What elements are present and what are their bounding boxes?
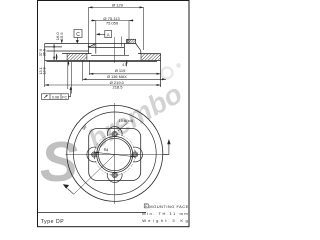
arrow Ø129 left	[89, 6, 93, 8]
front view: bore circles	[97, 137, 133, 173]
front view: bolt holes	[92, 131, 138, 177]
front view: bolt pitch circle	[94, 134, 135, 175]
front view: 45deg diagonal centerline	[74, 155, 115, 195]
OD left extension down	[44, 62, 46, 87]
section view: band bottom line	[45, 59, 161, 61]
datum C box	[74, 30, 82, 42]
front view: band inner circle	[73, 112, 156, 195]
svg-text:218.5: 218.5	[112, 85, 123, 90]
section view: left lip top line	[45, 46, 62, 48]
section view: flange right inner vertical	[126, 39, 128, 43]
svg-text:0.08: 0.08	[52, 95, 59, 99]
rotation arrow right: head	[167, 139, 170, 144]
svg-text:S: S	[40, 130, 78, 194]
dim Ø75 left extension	[95, 21, 97, 44]
section view: bore right wall	[124, 44, 126, 56]
svg-text:Ø 119: Ø 119	[115, 68, 126, 73]
extension below band x82.5	[82, 61, 84, 81]
section view: axis centerline	[113, 37, 115, 63]
section view: band top line right	[138, 53, 161, 55]
svg-text:4.9: 4.9	[122, 63, 127, 67]
section view: left lip second line	[47, 50, 89, 52]
svg-text:MOUNTING FACE: MOUNTING FACE	[149, 204, 188, 209]
arrow Ø219 right	[157, 84, 161, 86]
extension below band for FC pair	[67, 62, 69, 89]
front view: bolt hole cross ticks	[90, 130, 140, 180]
section view: right chamfer	[136, 44, 141, 51]
dim Ø75 line	[91, 20, 134, 22]
section view: band top line left	[62, 53, 92, 55]
arrow Ø119 left	[89, 73, 93, 75]
extension below band x89.3	[88, 61, 90, 76]
dim Ø136 line	[83, 78, 167, 80]
arrow 37.9 top	[53, 44, 55, 48]
watermark registered dot	[176, 63, 181, 68]
section view: OD left edge	[44, 44, 46, 62]
section view: hat neck chamfer diagonal	[89, 44, 95, 47]
svg-text:Type DP: Type DP	[41, 219, 64, 225]
arrow Ø136 left	[83, 78, 87, 80]
mounting-face arrow head	[63, 184, 69, 189]
section view: bolt hole centerline in section	[120, 37, 122, 47]
svg-text:Min. TH 11 mm: Min. TH 11 mm	[142, 211, 188, 216]
section view: left neck hatch wedge	[89, 44, 96, 48]
section view: hat neck left step line	[88, 45, 96, 47]
arrow small dim	[126, 61, 128, 64]
arrow Ø75 left outside	[92, 20, 96, 22]
dim Ø219 line	[45, 84, 161, 86]
section view: hat mounting face top line	[45, 43, 136, 45]
front view: scallop bumps around holes	[87, 127, 143, 183]
dim 16.0/15.5 arrow line	[61, 40, 63, 44]
svg-text:10.6(x4): 10.6(x4)	[119, 118, 134, 123]
small dim 4.9 line	[126, 61, 128, 67]
dim Ø129 right extension	[143, 7, 145, 50]
arrow 37.9 bottom	[53, 57, 55, 61]
section view: OD right edge	[160, 54, 162, 87]
FC feature control frame	[42, 90, 71, 100]
datum A box	[99, 31, 112, 38]
arrow Ø219 left	[45, 84, 49, 86]
arrow Ø75 right outside	[129, 20, 133, 22]
dim Ø129 line	[89, 6, 144, 8]
dim 37.9/36.9 line	[53, 44, 55, 60]
note: mounting face symbol box	[144, 204, 148, 208]
svg-text:15.5: 15.5	[59, 32, 64, 41]
section view: bore left wall	[95, 44, 97, 54]
dia94 arrows	[94, 152, 99, 154]
section view: left band hatch	[67, 54, 87, 61]
svg-text:75.050: 75.050	[106, 21, 119, 26]
arrow Ø119 right	[157, 73, 161, 75]
dim Ø129 left extension	[88, 7, 90, 43]
dim Ø119 line	[89, 73, 160, 75]
FC leader arrow	[70, 87, 72, 90]
section view: right band hatch	[141, 54, 161, 61]
datum A leader arrow	[96, 33, 100, 35]
drawing frame border	[38, 1, 190, 227]
svg-text:C: C	[76, 32, 80, 38]
svg-text:Ø 136 MAX: Ø 136 MAX	[107, 75, 127, 79]
section view: flange top right line	[127, 38, 136, 40]
dim Ø75 right extension	[128, 21, 130, 44]
arrow 13.1 up	[56, 54, 58, 57]
front view: center lines	[66, 103, 170, 204]
front view: outer circle	[67, 105, 163, 201]
section view: hat cone left edge	[88, 44, 90, 54]
FC arrow symbol tick	[46, 95, 48, 97]
dim 13.1/12.9 line	[56, 54, 58, 61]
arrow Ø136 right	[162, 78, 166, 80]
svg-text:36.9: 36.9	[42, 49, 46, 56]
arrow Ø129 right	[140, 6, 144, 8]
svg-text:Weight 3 Kg: Weight 3 Kg	[142, 218, 188, 223]
datum C leader arrow	[76, 40, 79, 43]
section view: right flange hatch	[128, 39, 136, 43]
title block separator line	[38, 211, 147, 213]
rotation arrow right: bent line	[163, 144, 169, 155]
front view: dia94 dimension line	[94, 152, 136, 157]
section view: right chamfer bottom vertical	[140, 51, 142, 54]
svg-text:FC: FC	[62, 95, 67, 99]
arrow 16.0 down	[61, 40, 63, 43]
section view: band top behind hat	[91, 54, 129, 56]
arrows for dims	[45, 6, 166, 90]
section view: band bottom second line	[47, 61, 158, 63]
mounting-face leader arrow lower-left	[68, 189, 74, 195]
front view: flange rounded square	[89, 129, 141, 181]
leader 10.6(x4)	[118, 124, 127, 131]
section view: bore inner step line	[89, 46, 125, 48]
svg-text:12.9: 12.9	[43, 67, 47, 74]
svg-text:Ø 129: Ø 129	[112, 2, 124, 7]
